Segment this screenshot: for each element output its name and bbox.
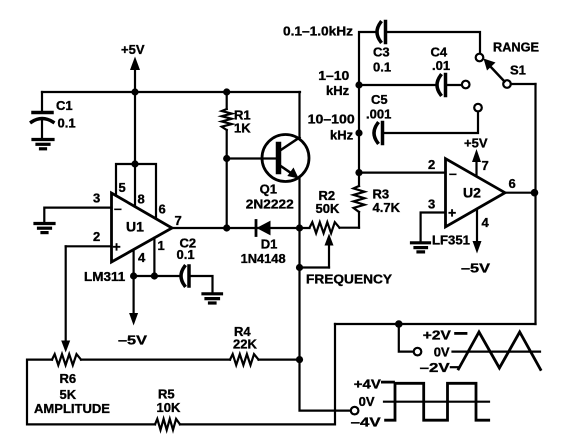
svg-text:1N4148: 1N4148 — [241, 251, 286, 266]
transistor Q1 — [246, 135, 309, 212]
svg-text:0.1: 0.1 — [373, 60, 391, 75]
wire wiper to right column — [511, 83, 536, 85]
svg-text:1–10: 1–10 — [318, 68, 349, 83]
svg-text:50K: 50K — [316, 201, 340, 216]
svg-text:0V: 0V — [359, 394, 375, 409]
svg-text:10K: 10K — [157, 400, 181, 415]
ground (U1 pin3) — [35, 224, 54, 233]
svg-text:Q1: Q1 — [260, 182, 277, 197]
terminal square output — [351, 407, 359, 415]
wire R4 to output column — [259, 359, 300, 361]
wire U1 bottom node — [134, 275, 179, 277]
svg-text:.01: .01 — [432, 58, 450, 73]
svg-text:3: 3 — [428, 196, 435, 211]
wire C3 to switch contact 1 — [386, 32, 481, 53]
switch contact 3 — [474, 104, 482, 112]
junction R3 top — [355, 169, 362, 176]
svg-text:C3: C3 — [373, 45, 390, 60]
svg-text:10–100: 10–100 — [308, 112, 355, 127]
wire C4 to contact 2 — [446, 84, 463, 86]
junction +5V rail — [131, 88, 138, 95]
svg-text:2: 2 — [428, 157, 435, 172]
switch contact 2 — [462, 81, 470, 89]
junction U1 pin1 bottom — [151, 272, 158, 279]
svg-text:4.7K: 4.7K — [373, 200, 401, 215]
junction R1 column output row — [223, 224, 230, 231]
svg-text:kHz: kHz — [326, 83, 350, 98]
svg-text:–4V: –4V — [351, 415, 381, 430]
switch contact 1 — [476, 54, 484, 62]
wire C4 row — [359, 84, 435, 86]
wire Q1 base — [227, 157, 277, 159]
svg-text:5K: 5K — [60, 387, 77, 402]
svg-text:1K: 1K — [234, 121, 251, 136]
op-amp U1 — [84, 193, 172, 284]
junction Q1 base — [223, 155, 230, 162]
ground (C2) — [203, 294, 222, 303]
potentiometer R6 — [34, 246, 110, 416]
svg-text:0V: 0V — [434, 345, 450, 360]
wire C5 to contact 3 — [383, 112, 479, 134]
svg-text:–: – — [449, 165, 457, 181]
svg-text:6: 6 — [159, 202, 166, 217]
svg-text:6: 6 — [509, 176, 516, 191]
svg-text:+5V: +5V — [464, 136, 488, 151]
svg-text:C1: C1 — [56, 98, 73, 113]
svg-text:7: 7 — [482, 158, 489, 173]
wire R6 to R4 — [81, 359, 230, 361]
svg-text:+5V: +5V — [121, 42, 145, 57]
ground (C1) — [33, 140, 53, 149]
svg-text:1: 1 — [158, 238, 165, 253]
wire Q1 collector — [298, 92, 300, 137]
junction frequency wiper — [296, 264, 303, 271]
junction U2 output — [531, 189, 539, 197]
svg-text:0.1: 0.1 — [177, 247, 195, 262]
junction U1 pin4 bottom — [130, 272, 137, 279]
wire C2 to ground — [189, 276, 213, 293]
+5V supply arrow — [121, 42, 145, 92]
svg-text:–5V: –5V — [118, 333, 147, 348]
wire U1 pin2 — [66, 245, 112, 247]
resistor R5 — [155, 387, 181, 430]
triangle waveform — [453, 332, 541, 370]
svg-text:2N2222: 2N2222 — [246, 197, 294, 212]
wire triangle output row — [335, 323, 536, 325]
resistor R3 — [354, 173, 401, 228]
junction triangle tap — [395, 320, 403, 328]
svg-text:–5V: –5V — [461, 261, 490, 276]
ground (U2 pin3) — [412, 243, 430, 252]
wire U1 output row — [172, 227, 310, 229]
svg-text:+4V: +4V — [354, 377, 381, 392]
svg-text:–: – — [114, 200, 122, 216]
svg-text:0.1: 0.1 — [58, 116, 76, 131]
wire Q1 emitter — [298, 179, 300, 228]
svg-text:D1: D1 — [261, 236, 278, 251]
potentiometer R2 — [310, 188, 340, 268]
svg-text:7: 7 — [175, 213, 182, 228]
svg-text:–2V: –2V — [420, 360, 450, 375]
label range 1-10 kHz — [318, 68, 349, 98]
svg-text:4: 4 — [482, 215, 490, 230]
wire bottom left corner — [27, 360, 155, 425]
svg-text:.001: .001 — [366, 107, 391, 122]
capacitor C5 — [366, 92, 391, 144]
labels triangle levels — [420, 328, 466, 376]
svg-text:LM311: LM311 — [84, 269, 125, 284]
-5V arrow U2 pin4 — [461, 209, 490, 276]
wire R1 bottom to output row — [226, 130, 228, 228]
svg-text:8: 8 — [138, 192, 145, 207]
pin 1,4 leads U1 — [134, 238, 165, 276]
svg-text:4: 4 — [138, 250, 146, 265]
junction C4 row — [355, 81, 362, 88]
wire U2 output — [505, 192, 536, 194]
resistor R4 — [230, 324, 259, 365]
svg-text:+: + — [448, 205, 456, 221]
wire right column — [534, 84, 536, 324]
wire R2 wiper to output column — [300, 266, 330, 268]
capacitor C1 — [32, 92, 76, 138]
wire output column down — [300, 228, 352, 411]
svg-text:kHz: kHz — [330, 128, 354, 143]
capacitor C2 — [177, 236, 197, 287]
diode D1 — [241, 221, 286, 267]
svg-text:5: 5 — [119, 180, 126, 195]
resistor R1 — [222, 92, 252, 136]
capacitor C3 — [373, 22, 391, 75]
svg-text:3: 3 — [93, 191, 100, 206]
svg-text:U1: U1 — [126, 219, 144, 235]
wire R3 top to U2 pin2 — [359, 172, 446, 174]
wire bottom feedback loop — [180, 324, 335, 424]
svg-text:RANGE: RANGE — [493, 40, 539, 55]
junction R4 right — [296, 356, 303, 363]
junction emitter output row — [296, 224, 303, 231]
wire R2 right to R3 — [340, 227, 360, 229]
labels square levels — [351, 377, 394, 430]
U1 strap pins 5,8,6 — [116, 160, 166, 218]
svg-text:R6: R6 — [60, 371, 77, 386]
capacitor C4 — [431, 45, 451, 96]
svg-text:22K: 22K — [233, 337, 257, 352]
junction R1 top — [223, 88, 230, 95]
junction C5 row — [355, 129, 362, 136]
svg-text:2: 2 — [93, 229, 100, 244]
wire U1 pin3 — [44, 208, 111, 223]
svg-text:FREQUENCY: FREQUENCY — [306, 272, 392, 287]
svg-text:AMPLITUDE: AMPLITUDE — [34, 401, 110, 416]
svg-text:+: + — [113, 239, 121, 255]
svg-text:0.1–1.0kHz: 0.1–1.0kHz — [283, 24, 354, 39]
svg-text:C5: C5 — [371, 92, 388, 107]
wire top +5V rail — [42, 91, 300, 93]
wire U2 pin3 — [421, 213, 446, 243]
+5V arrow U2 pin7 — [464, 136, 489, 177]
-5V arrow U1 — [118, 276, 147, 348]
wire capacitor bank column — [359, 32, 376, 173]
svg-text:U2: U2 — [463, 185, 481, 201]
svg-text:S1: S1 — [510, 63, 526, 78]
op-amp U2 — [432, 159, 505, 248]
square waveform — [384, 383, 489, 420]
svg-text:LF351: LF351 — [432, 233, 470, 248]
svg-text:+2V: +2V — [423, 328, 451, 343]
wire triangle tap down — [399, 324, 414, 352]
switch S1 wiper — [484, 40, 540, 88]
label range 10-100 kHz — [308, 112, 355, 143]
terminal triangle output — [414, 348, 422, 356]
wire +5V column to U1 strap — [134, 92, 136, 164]
